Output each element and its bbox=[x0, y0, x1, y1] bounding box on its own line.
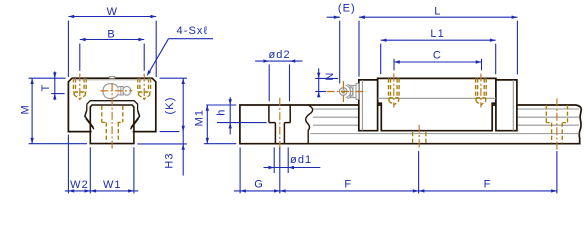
left view rail hole centerline bbox=[111, 83, 113, 150]
dimension od1 bbox=[273, 147, 275, 173]
side view block body bbox=[378, 78, 496, 130]
svg-text:L1: L1 bbox=[430, 28, 444, 40]
dimension M1 bbox=[206, 104, 236, 106]
svg-text:N: N bbox=[324, 72, 336, 81]
block tapped holes side view (dashed) bbox=[388, 78, 390, 97]
left view rail mounting hole hidden lines (counterbore) bbox=[101, 106, 103, 123]
dimension M bbox=[29, 143, 87, 145]
svg-text:h: h bbox=[216, 109, 228, 116]
mid rail mounting hole (hidden below block) bbox=[412, 132, 414, 143]
right tapped hole S (dashed) bbox=[137, 78, 139, 92]
svg-text:W2: W2 bbox=[70, 179, 89, 191]
svg-text:H3: H3 bbox=[164, 152, 176, 168]
section hole centerline bbox=[279, 98, 281, 151]
left view block (carriage) outline bbox=[68, 78, 155, 131]
svg-text:G: G bbox=[254, 179, 264, 191]
right skirt lip bbox=[131, 110, 140, 127]
svg-text:L: L bbox=[434, 6, 441, 18]
dimension B bbox=[79, 44, 81, 71]
svg-text:4-Sxℓ: 4-Sxℓ bbox=[177, 25, 209, 37]
rail groove lines (gray) bbox=[313, 108, 359, 110]
svg-text:T: T bbox=[40, 84, 52, 92]
svg-text:W: W bbox=[107, 6, 118, 18]
dimension C bbox=[393, 59, 395, 71]
grease nipple (front view, gray) bbox=[103, 84, 118, 99]
svg-text:W1: W1 bbox=[103, 179, 122, 191]
top oil port tab (gray) bbox=[110, 76, 115, 78]
dimension od2 bbox=[268, 64, 270, 101]
dimension (K) bbox=[160, 77, 187, 79]
svg-text:B: B bbox=[107, 29, 115, 41]
right tapped hole centerline bbox=[143, 74, 145, 103]
dimension W bbox=[67, 21, 69, 77]
dimension (E) bbox=[339, 21, 341, 84]
svg-text:ød2: ød2 bbox=[268, 49, 290, 61]
nipple centerlines bbox=[100, 90, 132, 92]
block channel roof bbox=[87, 101, 138, 111]
left skirt lip bbox=[85, 110, 94, 127]
left tapped hole centerline bbox=[79, 74, 81, 103]
svg-text:(K): (K) bbox=[164, 97, 176, 115]
grease nipple side view (gray) bbox=[350, 85, 356, 97]
dimension h bbox=[217, 122, 267, 124]
dimension T bbox=[29, 77, 66, 79]
block mid seam (gray) bbox=[378, 97, 496, 99]
svg-text:(E): (E) bbox=[338, 3, 356, 15]
dimension L1 bbox=[380, 44, 382, 74]
dimension L bbox=[516, 21, 518, 75]
dimension W2 W1 bbox=[67, 135, 69, 194]
svg-text:M1: M1 bbox=[194, 109, 206, 126]
left view rail (cross-section) bbox=[90, 105, 134, 144]
svg-text:ød1: ød1 bbox=[290, 154, 312, 166]
svg-text:C: C bbox=[433, 50, 442, 62]
nipple centerlines side view bbox=[327, 91, 366, 93]
left tapped hole S (dashed) bbox=[72, 78, 74, 92]
dimension N bbox=[315, 77, 338, 79]
rail break line bbox=[306, 105, 313, 144]
svg-text:F: F bbox=[484, 179, 492, 191]
block top seam line (gray) bbox=[73, 79, 152, 81]
right rail mounting hole (dashed) bbox=[545, 105, 547, 123]
dimension G F F bbox=[239, 147, 241, 193]
side view rail outline bbox=[240, 105, 581, 144]
right end cap bbox=[496, 80, 517, 131]
rail counterbore hole in section (d2/d1) bbox=[268, 105, 270, 123]
left end cap bbox=[359, 80, 378, 131]
svg-text:M: M bbox=[19, 104, 31, 114]
svg-text:F: F bbox=[344, 179, 352, 191]
dimension H3 bbox=[137, 143, 187, 145]
